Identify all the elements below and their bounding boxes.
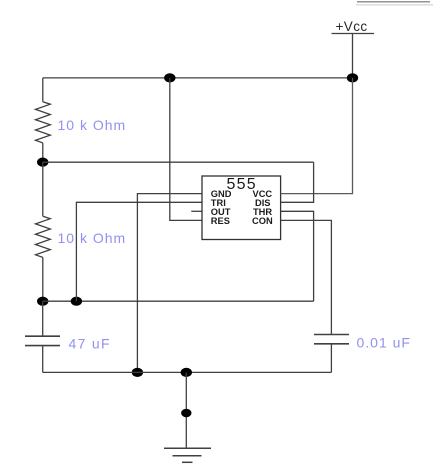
wire: top Vcc rail — [43, 77, 353, 79]
junction dot: +Vcc stem on rail — [347, 73, 358, 82]
wire RES (pin 4) — [170, 78, 202, 221]
node B junction dot (R2/C1/rail) — [37, 297, 48, 306]
junction dot: GND tap on ground rail — [132, 368, 143, 377]
capacitor C2 0.01uF — [314, 335, 349, 373]
wire THR (pin 6) riser to node B rail — [281, 211, 314, 301]
svg-text:+Vcc: +Vcc — [336, 19, 368, 34]
wire DIS (pin 7) riser to node A line — [281, 162, 314, 202]
wire CON (pin 5) to C2 — [281, 220, 332, 334]
capacitor C1 47uF — [25, 301, 60, 372]
power +Vcc symbol — [332, 19, 375, 78]
wire: node A to DIS riser — [43, 161, 314, 163]
junction dot: RES tap on Vcc rail — [164, 73, 175, 82]
junction dot: on ground stem — [181, 409, 191, 418]
wire VCC (pin 8) to +Vcc stem — [281, 78, 353, 194]
svg-text:RES: RES — [211, 216, 230, 226]
wire OUT stub (pin 3) — [191, 210, 202, 212]
resistor R1 10k — [36, 78, 51, 162]
svg-text:CON: CON — [252, 216, 273, 226]
wire: ground rail — [43, 371, 332, 373]
wire TRI (pin 2) — [76, 202, 202, 301]
svg-text:0.01 uF: 0.01 uF — [357, 335, 411, 351]
svg-text:10 k Ohm: 10 k Ohm — [58, 117, 127, 133]
junction dot: TRI tap on node B rail — [71, 297, 82, 306]
wire: node B rail to THR riser — [43, 300, 314, 302]
wire: ground stem — [185, 372, 187, 448]
resistor R2 10k — [36, 162, 51, 301]
wire GND (pin 1) — [137, 194, 202, 373]
ground symbol — [164, 448, 211, 462]
junction dot: ground stem tap — [181, 368, 192, 377]
svg-text:47 uF: 47 uF — [69, 336, 111, 352]
screen artifact lines top right — [357, 1, 430, 3]
svg-text:10 k Ohm: 10 k Ohm — [58, 230, 127, 246]
node A junction dot (R1/R2/DIS) — [37, 158, 48, 167]
IC U1 555 timer body — [202, 176, 281, 240]
